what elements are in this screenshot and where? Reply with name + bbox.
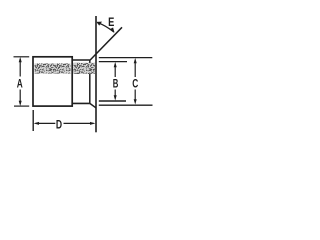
svg-text:B: B bbox=[113, 77, 119, 91]
svg-text:A: A bbox=[17, 76, 23, 90]
svg-text:C: C bbox=[132, 77, 138, 91]
svg-text:D: D bbox=[56, 117, 62, 131]
svg-text:E: E bbox=[108, 15, 114, 29]
